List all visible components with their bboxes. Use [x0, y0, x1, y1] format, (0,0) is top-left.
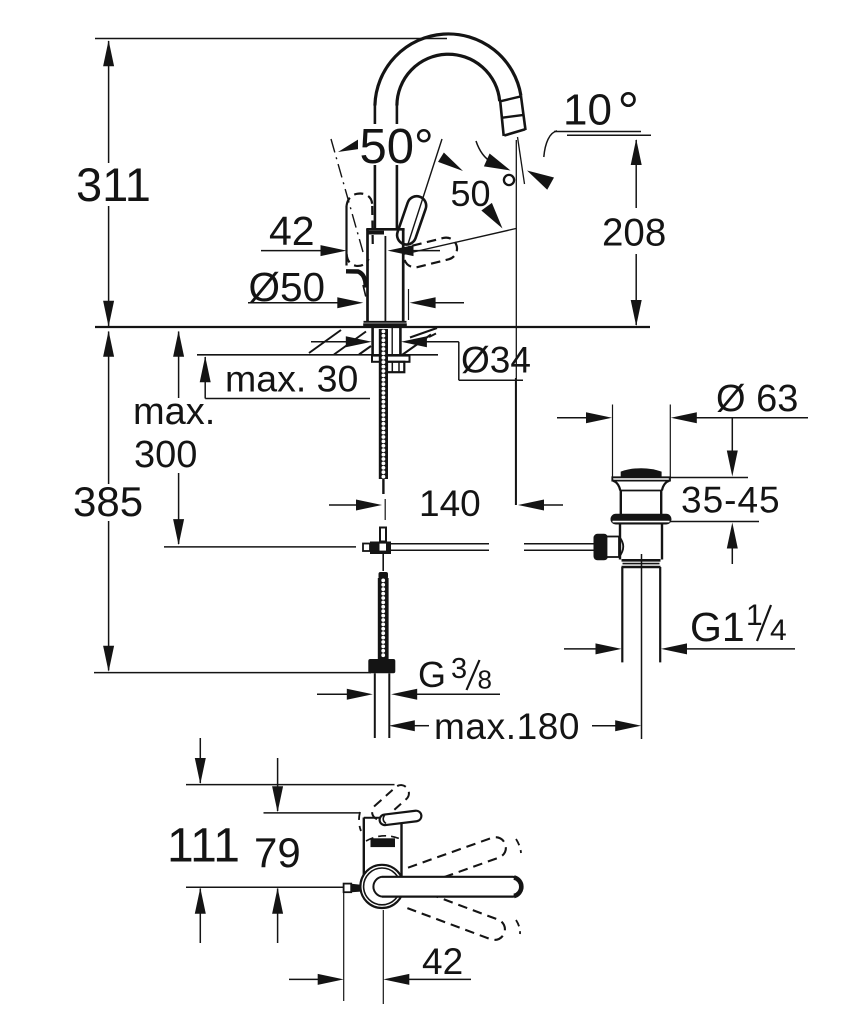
hose2 braided [378, 578, 389, 660]
swivel arrow left [484, 154, 513, 177]
svg-text:111: 111 [167, 820, 240, 873]
deg circle 50-2 [504, 175, 514, 185]
dashed handle horizontal position [402, 235, 460, 269]
G1 slash [757, 605, 771, 641]
dim D63 ext left [612, 405, 614, 478]
dim 140 right tail [543, 504, 563, 506]
aerator left edge [500, 101, 504, 136]
plan ref line mid [264, 812, 361, 814]
arrowhead 50-1 left [336, 138, 364, 157]
dashed spout swiveled [369, 782, 412, 823]
pull-rod hook [346, 271, 366, 287]
dim G38 right tail [417, 693, 500, 695]
linkage block hole [380, 544, 387, 551]
collar line3 [622, 566, 661, 569]
rod right bottom [391, 549, 489, 551]
top reference line [95, 38, 447, 40]
dim D34 left tail [311, 341, 347, 343]
dashed lever up tip [408, 834, 509, 887]
svg-text:G: G [418, 654, 446, 695]
lever ring outer [360, 865, 403, 908]
hatch R3 [429, 334, 436, 338]
svg-text:311: 311 [76, 158, 151, 211]
svg-text:300: 300 [134, 434, 197, 476]
svg-text:208: 208 [602, 212, 666, 255]
countertop bottom line [197, 354, 438, 356]
3545 arrow down [727, 451, 738, 477]
svg-text:1: 1 [746, 599, 763, 632]
dim 111 shaft bottom [199, 889, 201, 944]
dim D50 line [248, 302, 340, 304]
riser pipe left edge [374, 105, 377, 229]
o-ring [611, 514, 672, 525]
dim 208 arrow up [631, 139, 642, 165]
plan ref line top [186, 784, 395, 786]
hose2 top fitting [379, 572, 389, 579]
dim 79 shaft bottom [277, 889, 279, 944]
svg-text:3: 3 [451, 653, 467, 685]
dim 311 arrow up [103, 40, 114, 66]
dim G38 arrow left [391, 689, 417, 700]
collar line1 [622, 559, 661, 562]
dim D34 arrow right [346, 336, 372, 347]
nut inner line1 [391, 362, 393, 372]
dim 311 arrow down [103, 301, 114, 327]
plan ref line bottom [186, 886, 344, 888]
dim D63 left tail [557, 417, 587, 419]
dim 42b right tail [409, 978, 471, 980]
rod segment2 bottom [524, 549, 595, 551]
svg-text:42: 42 [422, 941, 463, 982]
ext 42b left [343, 893, 345, 1002]
svg-text:max.: max. [133, 391, 215, 433]
body cap black bar [367, 231, 385, 235]
arrowhead 50-2 at line [481, 203, 507, 232]
dim 111 arrow up [195, 888, 206, 914]
shank inner line [391, 328, 393, 355]
dim D34 right tail [426, 341, 459, 343]
dashed lever up motion arc [516, 839, 521, 853]
svg-text:385: 385 [73, 478, 143, 525]
plan body left edge [363, 818, 365, 877]
dash-dot centerline left handle [331, 139, 363, 252]
dim 140 left tail [329, 504, 357, 506]
ext 42b right [382, 910, 384, 1004]
pull-rod hook thin [363, 285, 366, 297]
3545 ref line top [668, 477, 748, 479]
rod segment2 top [524, 543, 595, 545]
dim max180 arrow left [389, 720, 415, 731]
rod down from block [382, 554, 384, 571]
base flange dark slab [363, 323, 407, 327]
dim max300 arrow down [173, 519, 184, 545]
swivel arc right [544, 131, 557, 157]
svg-text:G1: G1 [690, 604, 745, 650]
lever knuckle white box [607, 537, 620, 558]
body left edge [366, 229, 369, 322]
nozzle white box [344, 884, 352, 893]
spout top-view stadium [379, 810, 422, 826]
dim D63 arrow left [671, 412, 697, 423]
G38 slash [467, 660, 480, 690]
svg-text:max. 30: max. 30 [225, 358, 358, 400]
dim D34 underline [459, 379, 523, 381]
dim 79 arrow up [272, 888, 283, 914]
svg-text:79: 79 [254, 829, 301, 876]
dim D63 arrow right [586, 412, 612, 423]
rod right top [391, 543, 489, 545]
dim 42 arrow right [321, 245, 347, 256]
extension 140 [384, 499, 386, 520]
countertop top line [95, 326, 650, 328]
dim G38 arrow right [347, 689, 373, 700]
lever bar [373, 877, 521, 897]
dim max180 left tail [414, 725, 429, 727]
outlet pipe right [388, 673, 390, 738]
dim 42b arrow left [383, 974, 409, 985]
dim max30 shaft [204, 357, 206, 399]
drain neck line [620, 490, 662, 492]
dim 385 shaft lower [108, 521, 110, 671]
swivel arc left [476, 141, 492, 163]
dim G114 arrow left [661, 643, 687, 654]
dim 111 arrow down [195, 758, 206, 784]
outlet pipe left [374, 673, 376, 738]
hatch R1 [402, 335, 431, 356]
body cap top [366, 228, 404, 231]
label 50-1 bg [358, 124, 429, 165]
ball socket arc [619, 537, 623, 558]
dim G114 left tail [564, 648, 597, 650]
dashed handle left position [347, 194, 373, 266]
10deg line lower [567, 134, 651, 136]
dim 311 shaft upper [108, 41, 110, 163]
dim 385 arrow up [103, 331, 114, 357]
svg-text:10: 10 [563, 86, 612, 135]
svg-text:42: 42 [269, 208, 315, 254]
solid handle lever [395, 194, 429, 247]
dim 42b left tail [289, 978, 319, 980]
3545 shaft bottom [731, 547, 733, 564]
dim385 ref line [94, 672, 371, 674]
3545 arrow up [727, 523, 738, 549]
dim G114 right tail [686, 648, 795, 650]
3545 shaft top [731, 418, 733, 452]
dim 208 shaft upper [635, 140, 637, 208]
dim max180 right tail [592, 725, 616, 727]
base flange top [364, 321, 407, 323]
dashed lever down motion arc [516, 920, 520, 934]
dim D50 arrow left [410, 297, 436, 308]
tailpipe right [659, 567, 661, 662]
svg-text:35-45: 35-45 [681, 480, 781, 521]
svg-text:Ø 63: Ø 63 [716, 378, 798, 420]
dim max300 shaft upper [178, 332, 180, 399]
dim 140 arrow right [356, 500, 382, 511]
max300 ref line [164, 546, 356, 548]
dim D50 ext line [408, 289, 410, 320]
ext line x515 [515, 378, 517, 505]
10deg line upper [554, 131, 641, 133]
hatch L2 [334, 332, 366, 355]
aerator band1 [500, 96, 521, 101]
lever knuckle black [594, 534, 609, 561]
dim D50 arrow right [337, 297, 363, 308]
o-ring slit [613, 521, 670, 523]
svg-text:50: 50 [451, 173, 491, 214]
flange trumpet right [662, 481, 670, 491]
dim 42b arrow right [318, 974, 344, 985]
hatch R2 [410, 328, 437, 338]
drain body lower right [661, 525, 663, 560]
body right edge [402, 229, 405, 322]
drain body lower left [619, 525, 621, 560]
dim G114 arrow right [596, 643, 622, 654]
dim max30 arrow up [200, 356, 211, 382]
nut [387, 362, 404, 372]
dim 79 arrow down [272, 786, 283, 812]
aerator right edge [521, 96, 526, 131]
dim D34 arrow left [401, 336, 427, 347]
hatch L1 [309, 330, 341, 353]
aerator face [504, 129, 525, 135]
arrowhead 50-1 right [438, 153, 466, 176]
linkage stub [380, 528, 386, 542]
drain body upper left [620, 491, 622, 515]
spout outer arc [375, 34, 521, 106]
nut inner line2 [398, 362, 400, 372]
lever ring mid [364, 868, 401, 905]
dim max30 leader [205, 398, 370, 400]
dim 42 leader [261, 250, 322, 252]
dashed hidden spout arc in body [366, 836, 399, 841]
dim D50 tail right [435, 302, 464, 304]
flange top band [612, 477, 670, 480]
linkage block [370, 542, 391, 555]
lever tip crescent [514, 878, 521, 897]
cartridge black band [371, 838, 396, 847]
dim 311 shaft lower [108, 206, 110, 326]
plug knob black [621, 468, 662, 477]
spout inner arc [397, 54, 500, 105]
spout inner arc [383, 815, 386, 824]
dim D34 box vertical [458, 342, 460, 380]
leg line 50-1 right [408, 139, 442, 244]
linkage left rod [363, 544, 370, 552]
svg-text:140: 140 [419, 483, 481, 524]
hose1 braided [379, 329, 388, 479]
hose2 end nut [368, 659, 395, 673]
collar line2 [623, 563, 660, 565]
body seam [384, 236, 386, 322]
nozzle black wedge [351, 884, 360, 892]
washer [372, 356, 410, 362]
dim 79 shaft top [277, 758, 279, 811]
3545 ref line bottom [670, 521, 759, 523]
dashed lever down tip [407, 888, 508, 943]
dim 208 shaft lower [635, 254, 637, 325]
dim max300 shaft lower [178, 473, 180, 544]
dim 385 shaft upper [108, 332, 110, 485]
dim 385 arrow down [103, 646, 114, 672]
dim max300 arrow up [173, 331, 184, 357]
svg-text:4: 4 [770, 614, 787, 647]
hatch L3 [359, 346, 371, 355]
shank right edge [399, 327, 402, 355]
dim 140 arrow left [518, 500, 544, 511]
dim D63 ext right [669, 405, 671, 478]
dim D63 right tail [696, 417, 808, 419]
plan body top edge [364, 817, 384, 819]
riser pipe right edge [396, 105, 399, 229]
dim 42 arrow left [388, 245, 414, 256]
dashed body corner arc [359, 812, 361, 831]
dim max180 arrow right [615, 720, 641, 731]
plan body right edge [400, 821, 402, 877]
tailpipe left [621, 567, 623, 662]
dim 208 arrow down [631, 300, 642, 326]
svg-text:Ø34: Ø34 [461, 340, 531, 381]
stream tilted line [518, 137, 525, 184]
dim G38 left tail [317, 693, 348, 695]
dim 42 tail right [409, 250, 440, 252]
svg-text:max.180: max.180 [434, 706, 580, 747]
inner rod [641, 554, 643, 739]
drain body upper right [660, 491, 662, 515]
svg-text:50°: 50° [360, 120, 434, 174]
stream vertical line [515, 140, 517, 505]
aerator band2 [502, 115, 523, 118]
svg-text:8: 8 [478, 665, 492, 695]
flange trumpet left [613, 481, 621, 491]
swivel arrow right [524, 164, 554, 189]
hose1 rod tip [382, 479, 384, 494]
shank left edge [371, 327, 374, 355]
deg circle 10 [622, 93, 634, 105]
dim 111 shaft top [199, 738, 201, 783]
centerline 50-2 [409, 229, 516, 254]
